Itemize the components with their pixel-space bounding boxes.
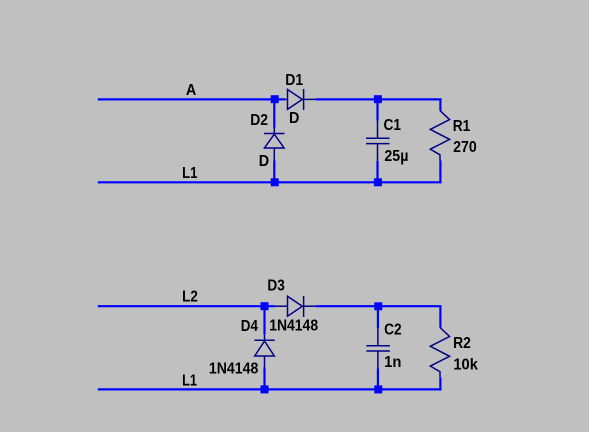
svg-text:1N4148: 1N4148 xyxy=(209,360,258,377)
svg-text:D1: D1 xyxy=(285,72,303,89)
svg-text:R2: R2 xyxy=(453,335,471,352)
svg-text:270: 270 xyxy=(453,139,477,156)
svg-text:A: A xyxy=(186,82,197,99)
svg-text:L1: L1 xyxy=(182,165,197,182)
svg-text:10k: 10k xyxy=(453,357,478,374)
svg-text:C1: C1 xyxy=(384,117,402,134)
svg-text:D: D xyxy=(259,153,269,170)
svg-text:D: D xyxy=(289,110,299,127)
svg-text:R1: R1 xyxy=(453,118,471,135)
svg-text:1N4148: 1N4148 xyxy=(269,317,318,334)
svg-text:25µ: 25µ xyxy=(384,148,408,165)
svg-text:C2: C2 xyxy=(384,322,402,339)
svg-text:D4: D4 xyxy=(241,318,258,335)
svg-text:D2: D2 xyxy=(250,112,268,129)
svg-text:D3: D3 xyxy=(267,278,284,295)
svg-text:L1: L1 xyxy=(182,373,197,390)
svg-text:L2: L2 xyxy=(182,289,198,306)
svg-text:1n: 1n xyxy=(384,354,401,371)
